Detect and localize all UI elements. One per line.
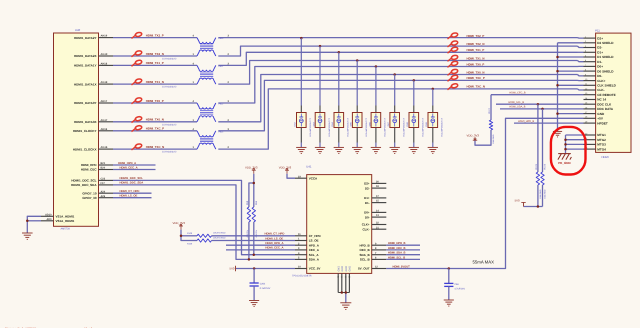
- svg-text:DDC CLK: DDC CLK: [597, 102, 612, 106]
- power port VDD_3V3 (R108/R109): [173, 221, 186, 229]
- wire HDMI1_DDC_SDA: [113, 185, 295, 260]
- svg-text:1UH-tbd/tbd-2: 1UH-tbd/tbd-2: [162, 123, 177, 126]
- svg-text:HDMI1_DDC_SCL: HDMI1_DDC_SCL: [120, 176, 144, 180]
- wire HDMI_CEC_B (stub): [386, 249, 420, 251]
- svg-text:AD10: AD10: [45, 213, 52, 216]
- svg-text:0.1uF/16V: 0.1uF/16V: [260, 287, 271, 290]
- svg-text:CT_HPD: CT_HPD: [309, 234, 322, 238]
- svg-text:1UH-tbd/tbd-2: 1UH-tbd/tbd-2: [162, 58, 177, 61]
- svg-text:RCLAMP0502B.TCT: RCLAMP0502B.TCT: [384, 117, 387, 136]
- wire HDMI_CEC_B (to connector): [491, 94, 584, 96]
- svg-text:GPIO7_30: GPIO7_30: [82, 196, 97, 200]
- svg-text:D1+: D1+: [364, 196, 370, 200]
- svg-text:LS_OE: LS_OE: [309, 239, 319, 243]
- svg-text:VCCA: VCCA: [309, 176, 318, 180]
- svg-text:HDMI1_CLOCKY: HDMI1_CLOCKY: [73, 129, 97, 133]
- svg-text:RCLAMP0502B.TCT: RCLAMP0502B.TCT: [309, 117, 312, 136]
- svg-text:AG16: AG16: [101, 146, 108, 149]
- ground (D62): [296, 147, 306, 153]
- net label HDMI_TX2_N (left): [132, 50, 164, 57]
- ground (D64): [334, 147, 344, 153]
- svg-text:P11: P11: [595, 28, 600, 32]
- net label HDMI_TXC_P (right): [448, 75, 485, 82]
- svg-text:VS1A_HDMI1: VS1A_HDMI1: [56, 214, 75, 218]
- svg-text:TPD12S521DBTR: TPD12S521DBTR: [292, 275, 312, 278]
- svg-text:D0-: D0-: [365, 215, 370, 219]
- svg-text:VDD_3V3: VDD_3V3: [245, 165, 258, 169]
- svg-text:AM5728: AM5728: [61, 228, 71, 231]
- net label HDMI_TX2_P (right): [448, 32, 485, 39]
- svg-text:D1-: D1-: [597, 60, 602, 64]
- svg-text:MTG3: MTG3: [597, 143, 606, 147]
- svg-text:R105: R105: [535, 163, 538, 169]
- svg-text:SCL_A: SCL_A: [309, 253, 320, 257]
- svg-text:RCLAMP0502B.TCT: RCLAMP0502B.TCT: [441, 117, 444, 136]
- wire HDMI_SDA_B (stub): [386, 254, 420, 256]
- svg-text:MTG2: MTG2: [597, 138, 606, 142]
- capacitor C66: [444, 269, 465, 300]
- svg-text:HDMI_SDA_B: HDMI_SDA_B: [509, 106, 525, 109]
- ESD diode D66: [368, 65, 386, 147]
- svg-text:HPD_B: HPD_B: [360, 243, 371, 247]
- svg-text:4.7uF/16V: 4.7uF/16V: [454, 287, 465, 290]
- svg-text:HDMI_CEC: HDMI_CEC: [81, 168, 98, 172]
- svg-text:HDMI1_DATA2Y: HDMI1_DATA2Y: [74, 36, 97, 40]
- svg-text:R108: R108: [187, 232, 193, 235]
- ground (D67): [390, 147, 400, 153]
- svg-text:VDD_3V3: VDD_3V3: [173, 221, 186, 225]
- wire HDMI_TX2_P (TMDS lane): [113, 37, 584, 40]
- wire 5V0 tie: [524, 205, 543, 208]
- wire HDMI_TX0_P (TMDS lane): [113, 66, 584, 103]
- svg-text:D2+: D2+: [364, 182, 370, 186]
- svg-text:HDMI_HPD_B: HDMI_HPD_B: [388, 242, 406, 245]
- svg-text:R99: R99: [255, 200, 258, 205]
- ground (D63): [315, 147, 325, 153]
- svg-text:VDD_3V3: VDD_3V3: [279, 165, 292, 169]
- ground (VS1A): [22, 233, 33, 239]
- svg-text:HDMI_TXC_P: HDMI_TXC_P: [467, 76, 485, 80]
- wire VDD to R108/R109: [180, 230, 197, 241]
- wire IC GND tie: [338, 291, 349, 302]
- svg-text:D0+: D0+: [364, 211, 370, 215]
- svg-text:10K/1%/SMD: 10K/1%/SMD: [213, 237, 226, 240]
- wire HDMI_TXC_P (TMDS lane): [113, 80, 584, 130]
- svg-text:GND: GND: [597, 112, 605, 116]
- ground (D68): [409, 147, 419, 153]
- wire HDMI_TX1_P (TMDS lane): [113, 52, 584, 65]
- svg-text:1UH-tbd/tbd-2: 1UH-tbd/tbd-2: [162, 151, 177, 154]
- svg-text:A24: A24: [101, 190, 106, 193]
- svg-text:R107: R107: [488, 107, 491, 113]
- svg-text:PE_GND: PE_GND: [558, 161, 571, 165]
- svg-text:RCLAMP0502B.TCT: RCLAMP0502B.TCT: [403, 117, 406, 136]
- net label HDMI_TX0_P (left): [132, 97, 164, 104]
- svg-text:HDMI_SDA_B: HDMI_SDA_B: [388, 252, 406, 255]
- common-mode choke FB21: [162, 62, 230, 88]
- svg-text:HDMI_TX0_P: HDMI_TX0_P: [146, 99, 164, 103]
- resistor R99: [252, 200, 258, 237]
- chassis ground PE_GND: [558, 154, 572, 165]
- net label HDMI_TX0_N (left): [132, 116, 164, 123]
- svg-text:DNL/SMD: DNL/SMD: [539, 189, 542, 199]
- svg-text:HDMI1_DDC_SDA: HDMI1_DDC_SDA: [120, 181, 144, 185]
- svg-text:R98: R98: [246, 200, 249, 205]
- svg-text:D0+: D0+: [597, 65, 603, 69]
- svg-text:HDMI_TX0_N: HDMI_TX0_N: [146, 118, 164, 122]
- svg-text:C66: C66: [454, 283, 459, 286]
- wire VCCA: [287, 174, 295, 178]
- wire HDMI_HPD_B (to connector): [514, 122, 584, 124]
- svg-text:CEC_A: CEC_A: [309, 248, 320, 252]
- svg-text:AD9: AD9: [46, 218, 52, 221]
- svg-text:HDMI1_DATA1X: HDMI1_DATA1X: [74, 82, 97, 86]
- svg-text:RCLAMP0502B.TCT: RCLAMP0502B.TCT: [422, 117, 425, 136]
- ESD diode D69: [425, 88, 443, 148]
- wire HDMI_CT_HPD (to U41): [212, 235, 296, 237]
- svg-text:GND: GND: [341, 266, 344, 272]
- svg-text:HDMI_TX0_P: HDMI_TX0_P: [467, 62, 485, 66]
- svg-text:HDMI1_CLOCKX: HDMI1_CLOCKX: [73, 147, 97, 151]
- wire HDMI_LS_OE (to U41): [212, 240, 296, 242]
- net label HDMI_TX2_N (right): [448, 40, 485, 47]
- svg-text:R109: R109: [187, 242, 193, 245]
- wire HDMI_TX0_N (TMDS lane): [113, 75, 584, 122]
- svg-text:15: 15: [345, 276, 347, 279]
- svg-text:HDMI_CT_HPD: HDMI_CT_HPD: [265, 232, 285, 236]
- annotation highlight (red rounded box markup): [551, 127, 586, 175]
- wire HDMI_HPD_A (to U41): [226, 244, 295, 246]
- svg-text:GND: GND: [345, 266, 348, 272]
- common-mode choke FB20: [162, 35, 230, 61]
- svg-text:5V0: 5V0: [515, 199, 520, 203]
- svg-text:4.7K/5%: 4.7K/5%: [255, 230, 258, 238]
- wire HDMI_TX2_N (TMDS lane): [113, 46, 584, 56]
- ground (D66): [371, 147, 381, 153]
- svg-text:CLK+: CLK+: [362, 223, 370, 227]
- svg-text:A26: A26: [101, 195, 106, 198]
- ESD diode D63: [312, 45, 330, 147]
- ESD diode D68: [406, 79, 424, 147]
- common-mode choke FB23: [162, 128, 230, 154]
- svg-text:HDMI_TX2_N: HDMI_TX2_N: [146, 52, 164, 56]
- svg-text:AG19: AG19: [101, 53, 108, 56]
- power port VDD_3V3 (VCCA): [279, 165, 292, 173]
- svg-text:VS1A_HDMI1: VS1A_HDMI1: [56, 219, 75, 223]
- resistor R98: [246, 200, 251, 237]
- svg-text:AG18: AG18: [101, 81, 108, 84]
- svg-text:+5V: +5V: [597, 117, 604, 121]
- power port VDD_3V3 (R98/R99): [245, 165, 258, 173]
- ground (U41 GND): [340, 303, 351, 310]
- wire HDMI_CEC_A (to U41): [226, 249, 295, 251]
- wire shield/GND bus: [556, 43, 583, 131]
- svg-text:F17: F17: [101, 182, 106, 185]
- svg-text:D1 SHIELD: D1 SHIELD: [597, 55, 614, 59]
- svg-text:HDMI_TXC_N: HDMI_TXC_N: [467, 85, 485, 89]
- svg-text:CE REMOTE: CE REMOTE: [597, 93, 615, 97]
- svg-text:13: 13: [337, 276, 339, 279]
- svg-text:HDMI_TX1_P: HDMI_TX1_P: [467, 48, 485, 52]
- HDMI connector P11: [584, 28, 632, 159]
- svg-text:HDMI_SCL_B: HDMI_SCL_B: [508, 101, 524, 104]
- earth ground (shield bus): [553, 131, 562, 137]
- wire HDMI_SCL_B (stub): [386, 258, 420, 260]
- wire HDMI_TXC_N (TMDS lane): [113, 89, 584, 149]
- net label HDMI_TX1_N (right): [448, 55, 485, 62]
- wire HDMI_CT_HPD (from SoC): [113, 192, 152, 194]
- svg-text:HDMI_HPD_A: HDMI_HPD_A: [265, 241, 283, 245]
- SoC U40 (AM5728 HDMI port block): [41, 28, 113, 230]
- svg-text:HDMI_TX2_N: HDMI_TX2_N: [467, 42, 485, 46]
- svg-text:HDMI_5VOUT: HDMI_5VOUT: [393, 265, 411, 268]
- power port 5V0 (pullups): [515, 199, 526, 207]
- svg-text:SDA_B: SDA_B: [360, 253, 371, 257]
- ESD diode D64: [331, 51, 349, 147]
- net label HDMI_TXC_N (right): [448, 83, 485, 90]
- svg-text:B20: B20: [101, 167, 106, 170]
- ground (C264): [249, 301, 259, 307]
- svg-text:HPD_A: HPD_A: [309, 243, 320, 247]
- wire HDMI_HPD_A (from SoC): [113, 164, 156, 166]
- wire HDMI_SDA_B (to connector): [500, 108, 584, 111]
- svg-text:DNL/SMD: DNL/SMD: [492, 134, 495, 144]
- svg-text:GND: GND: [337, 266, 340, 272]
- svg-text:R106: R106: [543, 163, 546, 169]
- ESD diode D67: [387, 73, 405, 147]
- wire R99 to SCL_A: [253, 222, 256, 256]
- svg-text:HDMI_TXC_N: HDMI_TXC_N: [146, 145, 164, 149]
- svg-text:HDMI_CEC_B: HDMI_CEC_B: [509, 92, 525, 95]
- ESD diode D65: [350, 59, 368, 147]
- wire VS1A_HDMI1 to ground: [26, 216, 41, 233]
- svg-text:CLK SHIELD: CLK SHIELD: [597, 84, 616, 88]
- svg-text:D1-: D1-: [365, 201, 370, 205]
- svg-text:GND: GND: [349, 266, 352, 272]
- svg-text:AH17: AH17: [101, 100, 108, 103]
- svg-text:VDD_3V3: VDD_3V3: [467, 133, 480, 137]
- svg-text:HDMI: HDMI: [602, 155, 609, 159]
- ESD diode D62: [294, 37, 312, 147]
- svg-text:HDMI_CEC_A: HDMI_CEC_A: [120, 165, 138, 169]
- wire HDMI_CEC_A (from SoC): [113, 169, 156, 171]
- svg-text:14: 14: [341, 276, 343, 279]
- svg-text:C264: C264: [260, 283, 266, 286]
- power port 5V0 (VCC_5V): [230, 266, 236, 271]
- net label HDMI_TX2_P (left): [132, 32, 164, 39]
- resistor R107: [475, 95, 495, 146]
- svg-text:MTG1: MTG1: [597, 133, 606, 137]
- svg-text:VCC_5V: VCC_5V: [309, 267, 321, 271]
- svg-text:HDMI_SCL_B: HDMI_SCL_B: [388, 256, 405, 259]
- wire VCC_5V: [236, 267, 295, 270]
- svg-text:HPDET: HPDET: [597, 121, 608, 125]
- svg-text:HDMI1_DATA0X: HDMI1_DATA0X: [74, 120, 97, 124]
- svg-text:HDMI_HPD_B: HDMI_HPD_B: [518, 120, 534, 123]
- svg-text:AG17: AG17: [101, 119, 108, 122]
- svg-text:D2+: D2+: [597, 36, 603, 40]
- svg-text:HDMI1_DATA1Y: HDMI1_DATA1Y: [74, 64, 97, 68]
- net label HDMI_TX0_N (right): [448, 69, 485, 76]
- svg-text:SCL_B: SCL_B: [360, 258, 371, 262]
- svg-text:HDMI_TXC_P: HDMI_TXC_P: [146, 127, 164, 131]
- wire HDMI_SCL_B (to connector): [496, 103, 584, 106]
- net label HDMI_TX0_P (right): [448, 61, 485, 68]
- svg-text:D2 SHIELD: D2 SHIELD: [597, 41, 614, 45]
- svg-text:HDMI1_DATA0Y: HDMI1_DATA0Y: [74, 101, 97, 105]
- svg-text:HDMI_TX2_P: HDMI_TX2_P: [467, 34, 485, 38]
- resistor R106: [541, 109, 547, 207]
- svg-text:D2-: D2-: [597, 46, 602, 50]
- svg-text:HDMI1_DDC_SDA: HDMI1_DDC_SDA: [71, 183, 97, 187]
- svg-text:CLK-: CLK-: [363, 227, 370, 231]
- svg-text:HDMI_TX2_P: HDMI_TX2_P: [146, 33, 164, 37]
- svg-text:DDC DATA: DDC DATA: [597, 107, 613, 111]
- capacitor C264: [250, 269, 271, 301]
- svg-text:B21: B21: [101, 162, 106, 165]
- svg-text:D0 SHIELD: D0 SHIELD: [597, 69, 614, 73]
- svg-text:RCLAMP0502B.TCT: RCLAMP0502B.TCT: [328, 117, 331, 136]
- svg-text:AH18: AH18: [101, 63, 108, 66]
- svg-text:NC 14: NC 14: [597, 98, 606, 102]
- svg-text:C23: C23: [101, 178, 106, 181]
- power port VDD_3V3 (R107): [467, 133, 480, 140]
- svg-text:HDMI_TX0_N: HDMI_TX0_N: [467, 70, 485, 74]
- svg-text:HDMI_CT_HPD: HDMI_CT_HPD: [120, 189, 140, 193]
- ground (D65): [352, 147, 362, 153]
- svg-text:HDMI1_DDC_SCL: HDMI1_DDC_SCL: [71, 179, 96, 183]
- svg-text:55mA MAX: 55mA MAX: [473, 259, 495, 264]
- svg-text:MTG4: MTG4: [597, 147, 606, 151]
- svg-text:HDMI_CEC_B: HDMI_CEC_B: [388, 247, 406, 250]
- svg-text:SDA_A: SDA_A: [309, 258, 320, 262]
- svg-text:5V_OUT: 5V_OUT: [358, 267, 370, 271]
- svg-text:DNL/SMD: DNL/SMD: [543, 189, 546, 199]
- resistor R105: [535, 104, 542, 206]
- svg-text:HDMI_CEC_A: HDMI_CEC_A: [265, 246, 283, 250]
- wire HDMI_LS_OE (from SoC): [113, 197, 152, 199]
- svg-text:RCLAMP0502B.TCT: RCLAMP0502B.TCT: [365, 117, 368, 136]
- svg-text:RCLAMP0502B.TCT: RCLAMP0502B.TCT: [347, 117, 350, 136]
- svg-text:5V0: 5V0: [230, 267, 235, 271]
- resistor R108: [187, 231, 226, 237]
- svg-text:HDMI1_DATA2X: HDMI1_DATA2X: [74, 54, 97, 58]
- svg-text:1UH-tbd/tbd-2: 1UH-tbd/tbd-2: [162, 86, 177, 89]
- svg-text:D0-: D0-: [597, 74, 602, 78]
- svg-text:GPIO7_10: GPIO7_10: [82, 191, 97, 195]
- svg-text:HDMI_TX1_P: HDMI_TX1_P: [146, 61, 164, 65]
- svg-text:HDMI_LS_OE: HDMI_LS_OE: [120, 194, 138, 198]
- svg-text:HDMI_HPD: HDMI_HPD: [81, 163, 98, 167]
- wire VDD to pullups: [249, 174, 255, 207]
- svg-text:D2-: D2-: [365, 186, 370, 190]
- net label HDMI_TX1_P (right): [448, 47, 485, 54]
- svg-text:10K/1%/SMD: 10K/1%/SMD: [213, 231, 226, 234]
- net label HDMI_TX1_N (left): [132, 78, 164, 85]
- svg-text:U40: U40: [75, 28, 81, 32]
- svg-text:AH19: AH19: [101, 35, 108, 38]
- net label HDMI_TX1_P (left): [132, 60, 164, 67]
- wire R98 to SDA_A: [248, 222, 251, 261]
- svg-text:HDMI_HPD_A: HDMI_HPD_A: [118, 161, 136, 165]
- svg-text:AH16: AH16: [101, 128, 108, 131]
- resistor R109: [187, 237, 226, 246]
- wire MTG tie: [564, 135, 583, 153]
- wire HDMI_HPD_B (stub): [386, 244, 420, 246]
- svg-text:CEC_B: CEC_B: [360, 248, 371, 252]
- svg-text:HDMI_LS_OE: HDMI_LS_OE: [265, 236, 283, 240]
- net label HDMI_TXC_P (left): [132, 125, 165, 132]
- svg-text:16: 16: [348, 276, 350, 279]
- wire HDMI_TX1_N (TMDS lane): [113, 61, 584, 85]
- wire HDMI_5VOUT: [386, 118, 583, 269]
- net label HDMI_TXC_N (left): [132, 143, 165, 150]
- svg-text:D1+: D1+: [597, 51, 603, 55]
- svg-text:CLK+: CLK+: [597, 79, 605, 83]
- ground (C66): [444, 300, 454, 306]
- IC U41 (TPD12S521): [292, 164, 386, 292]
- ground (D69): [428, 147, 438, 153]
- svg-text:HDMI_TX1_N: HDMI_TX1_N: [146, 80, 164, 84]
- common-mode choke FB22: [162, 100, 230, 126]
- wire HDMI1_DDC_SCL: [113, 180, 295, 254]
- svg-text:HDMI_TX1_N: HDMI_TX1_N: [467, 56, 485, 60]
- svg-text:CLK-: CLK-: [597, 88, 604, 92]
- svg-text:U41: U41: [306, 164, 312, 168]
